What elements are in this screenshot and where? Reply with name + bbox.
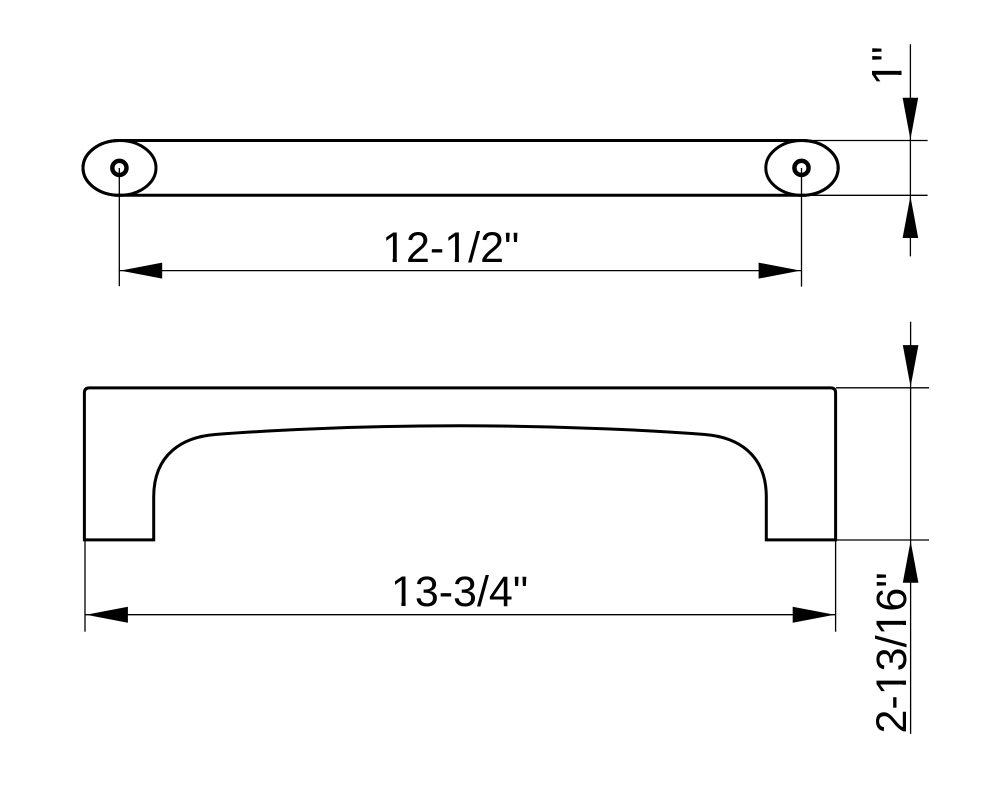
arrowhead down 2-13/16 xyxy=(903,345,919,387)
svg-text:2-13/16": 2-13/16" xyxy=(868,572,916,733)
dimension line 1 inch xyxy=(903,44,919,256)
left extension line for 13-3/4 dim xyxy=(84,541,86,632)
arrowhead left 12-1/2 xyxy=(120,263,162,279)
left hole extension line xyxy=(118,168,120,286)
dimension line 12-1/2 xyxy=(119,263,801,279)
arrowhead down 1 inch xyxy=(903,98,919,140)
top extension line for 2-13/16 dim xyxy=(836,387,929,389)
svg-text:13-3/4": 13-3/4" xyxy=(391,568,528,616)
right hole extension line xyxy=(801,168,803,287)
svg-text:1": 1" xyxy=(864,46,912,85)
svg-text:12-1/2": 12-1/2" xyxy=(382,224,519,272)
arrowhead up 2-13/16 xyxy=(903,541,919,583)
arrowhead up 1 inch xyxy=(903,196,919,238)
arrowhead right 13-3/4 xyxy=(793,607,835,623)
dimension text 12-1/2 xyxy=(382,224,519,272)
dimension line 13-3/4 xyxy=(85,607,836,623)
bottom extension line for 1 inch dim xyxy=(810,194,928,196)
arrowhead right 12-1/2 xyxy=(759,263,801,279)
dimension text 1 inch xyxy=(864,46,912,85)
bottom extension line for 2-13/16 dim xyxy=(836,539,929,541)
arrowhead left 13-3/4 xyxy=(86,607,128,623)
right end ellipse xyxy=(766,141,838,196)
left screw hole xyxy=(112,161,126,175)
left end ellipse xyxy=(83,141,156,196)
dimension text 2-13/16 xyxy=(868,572,916,733)
handle front view outline xyxy=(84,388,835,540)
dimension line 2-13/16 xyxy=(903,322,919,734)
top extension line for 1 inch dim xyxy=(802,140,928,142)
right screw hole xyxy=(794,161,808,175)
dimension text 13-3/4 xyxy=(391,568,528,616)
right extension line for 13-3/4 dim xyxy=(835,541,837,632)
top view bar outline xyxy=(83,141,838,196)
